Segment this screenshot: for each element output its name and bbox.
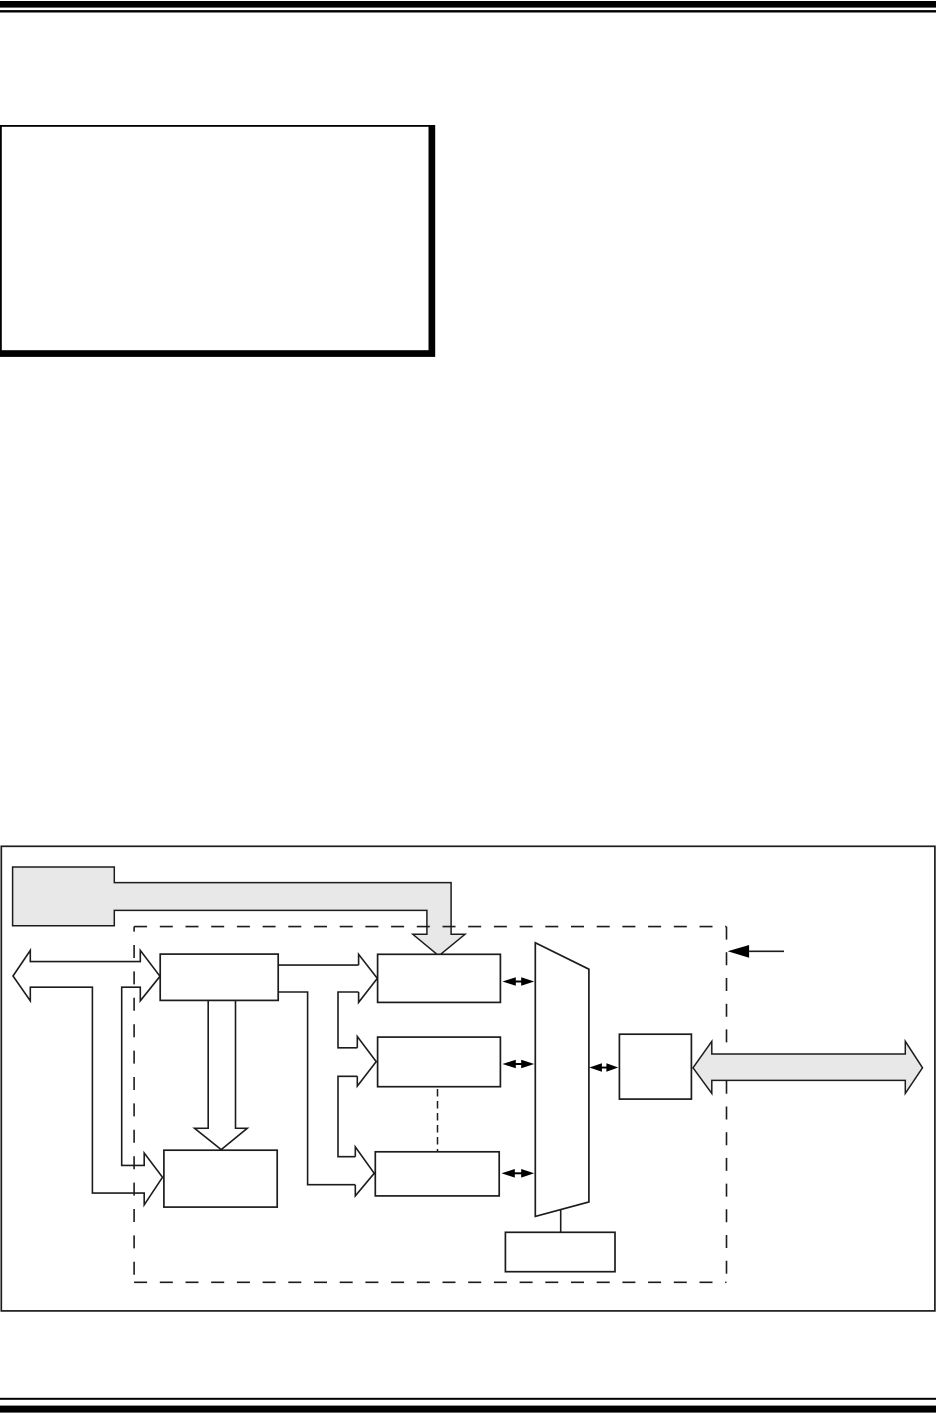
mux trapezoid	[535, 943, 589, 1217]
figure outer frame	[1, 846, 935, 1311]
small bidir arrow M1 to mux	[503, 977, 535, 986]
small bidir arrow M3 to mux	[502, 1169, 535, 1178]
box M2	[378, 1037, 501, 1087]
open arrowhead into M1	[359, 954, 378, 1002]
box M1	[378, 954, 501, 1002]
wire box A down to M3 arrow	[278, 992, 355, 1185]
page footer thick rule	[0, 1406, 936, 1413]
dashed module boundary bottom edge	[134, 1281, 726, 1283]
dashed module boundary right edge	[726, 927, 728, 1283]
small left-pointing arrow at dashed border top right	[728, 945, 784, 958]
box M3	[375, 1152, 499, 1196]
open arrowhead into M2	[357, 1037, 376, 1087]
open double-headed arrow left with branch to box B	[13, 950, 163, 1205]
dashed module boundary top edge	[134, 926, 726, 928]
gray elbow arrow into box M1	[13, 867, 465, 956]
gray wide bidirectional bus arrow right	[693, 1041, 923, 1093]
box B	[164, 1150, 277, 1207]
open arrowhead into M3	[355, 1147, 374, 1196]
note box white interior	[2, 127, 429, 350]
note box shadow frame	[0, 125, 435, 357]
page header thin rule	[0, 10, 936, 12]
dashed module boundary left edge	[133, 927, 135, 1283]
hollow down arrow box A to box B	[195, 1000, 248, 1149]
page footer thin rule	[0, 1398, 936, 1400]
small box right	[619, 1034, 691, 1099]
wire bracket M2 arrow to M3 arrow	[338, 1076, 357, 1156]
dashed ellipsis line M2 to M3	[437, 1089, 439, 1152]
small bidir arrow M2 to mux	[503, 1060, 535, 1069]
page header thick rule	[0, 1, 936, 8]
small bidir arrow mux to small box	[589, 1063, 618, 1071]
bottom box	[505, 1232, 615, 1271]
wire bracket M1 arrow to M2 arrow	[338, 992, 359, 1048]
box A	[160, 954, 278, 1000]
wire box A to M1 arrow	[278, 964, 358, 966]
stem trapezoid to bottom box	[560, 1210, 562, 1233]
